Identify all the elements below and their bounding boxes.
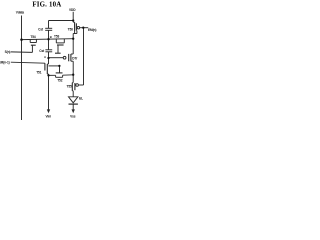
svg-text:Cst: Cst <box>39 49 45 53</box>
svg-text:B: B <box>50 35 52 39</box>
svg-text:Cst: Cst <box>38 27 44 31</box>
svg-text:A: A <box>44 55 46 59</box>
svg-text:S(n): S(n) <box>5 50 11 54</box>
svg-text:T54: T54 <box>30 35 36 39</box>
svg-text:EM(n): EM(n) <box>88 28 96 32</box>
svg-text:T52: T52 <box>57 78 63 82</box>
svg-text:T51: T51 <box>36 71 42 75</box>
svg-text:DTr: DTr <box>72 56 78 60</box>
svg-text:VDD: VDD <box>69 8 76 12</box>
svg-text:T55: T55 <box>67 84 73 88</box>
svg-text:FIG. 10A: FIG. 10A <box>32 1 61 8</box>
svg-text:Vini: Vini <box>46 115 52 119</box>
svg-text:T53: T53 <box>54 34 60 38</box>
svg-text:Vdata: Vdata <box>16 11 25 15</box>
svg-text:EM(n-1): EM(n-1) <box>0 60 10 64</box>
svg-text:T56: T56 <box>68 27 74 31</box>
svg-text:Vss: Vss <box>70 114 76 118</box>
svg-text:EL: EL <box>79 97 83 101</box>
